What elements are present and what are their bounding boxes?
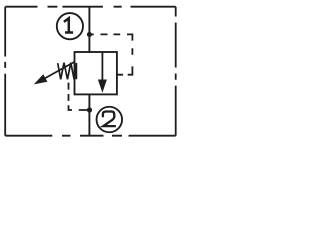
enclosure dashed boundary (bottom edge): [5, 135, 176, 137]
enclosure dashed boundary (top edge): [5, 6, 176, 8]
port 1 label circle: [57, 13, 83, 39]
adjustment arrow (crosses spring, head lower-left): [34, 62, 75, 85]
enclosure dashed boundary (left edge): [4, 7, 6, 136]
enclosure dashed boundary (right edge): [175, 7, 177, 136]
node: junction dot at port 1 / pilot tap: [87, 32, 92, 37]
valve body (square envelope): [75, 52, 117, 94]
port 2 label circle: [97, 107, 123, 133]
wire: port 2 line (valve bottom to bottom edge): [88, 94, 90, 135]
spring (adjustable, left of valve): [58, 63, 77, 80]
flow path arrow inside valve (normally closed, points to port 2): [98, 52, 107, 93]
drain line (dashed, spring chamber to port 2): [69, 83, 88, 110]
port 2 label digit "2": [103, 112, 116, 127]
pilot line (dashed, port 1 tap to valve right side): [92, 34, 133, 74]
wire: port 1 line (top edge to valve top): [88, 7, 90, 52]
node: junction dot at port 2 / drain return: [87, 107, 92, 112]
port 1 label digit "1": [64, 18, 73, 32]
